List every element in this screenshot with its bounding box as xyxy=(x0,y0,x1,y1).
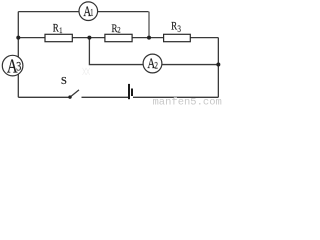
svg-text:2: 2 xyxy=(154,61,158,71)
svg-text:1: 1 xyxy=(90,8,93,18)
svg-text:R: R xyxy=(53,23,59,35)
svg-text:3: 3 xyxy=(177,24,181,34)
svg-text:R: R xyxy=(171,21,177,33)
svg-text:╳╳: ╳╳ xyxy=(82,68,91,76)
svg-text:3: 3 xyxy=(16,60,21,74)
svg-text:manfen5.com: manfen5.com xyxy=(153,97,222,109)
svg-text:1: 1 xyxy=(59,25,63,35)
svg-text:S: S xyxy=(61,77,67,88)
svg-text:2: 2 xyxy=(117,25,121,35)
